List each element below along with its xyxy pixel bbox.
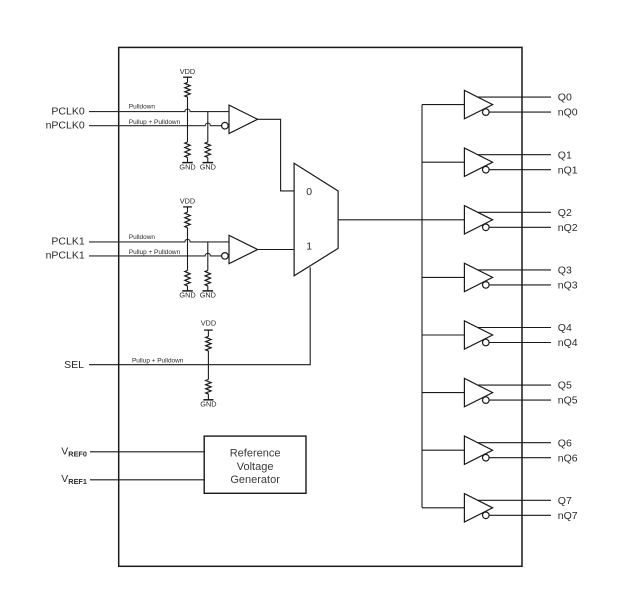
wire PCLK1 input (hop over pullup vertical) — [89, 239, 229, 242]
svg-text:GND: GND — [179, 291, 195, 300]
wire output buffer U10 input — [422, 449, 464, 451]
wire pullup/pulldown vertical (nPCLK0) — [187, 97, 189, 142]
wire nQ7 output — [489, 514, 551, 516]
svg-text:REF1: REF1 — [68, 477, 87, 486]
svg-text:Generator: Generator — [230, 474, 280, 486]
wire output distribution bus — [421, 105, 423, 508]
svg-text:REF0: REF0 — [68, 449, 87, 458]
svg-text:0: 0 — [306, 186, 312, 198]
wire nQ5 output — [489, 399, 551, 401]
wire pulldown vertical (PCLK0) — [207, 112, 209, 142]
svg-text:Q4: Q4 — [558, 322, 572, 334]
input buffer U1 — [222, 105, 258, 133]
wire output buffer U8 input — [422, 334, 464, 336]
wire nPCLK0 input (hop over pulldown vertical) — [89, 123, 222, 126]
resistor pullup (nPCLK1) — [185, 212, 190, 228]
resistor pullup (SEL) — [206, 336, 211, 351]
svg-text:VDD: VDD — [180, 67, 195, 76]
wire SEL input to mux select — [89, 267, 310, 365]
svg-text:PCLK0: PCLK0 — [51, 105, 84, 117]
reference voltage generator block — [204, 436, 306, 493]
input buffer U2 — [222, 235, 258, 263]
wire output buffer U9 input — [422, 392, 464, 394]
wire nQ1 output — [489, 169, 551, 171]
svg-text:nQ0: nQ0 — [558, 107, 578, 119]
resistor pulldown (PCLK1) — [205, 270, 210, 286]
wire Q0 output — [478, 96, 551, 98]
wire VREF0 input — [90, 451, 204, 453]
wire Q1 output — [478, 154, 551, 156]
pin label VREF1 — [61, 473, 87, 486]
ground GND (SEL pulldown) — [200, 394, 216, 409]
svg-text:GND: GND — [179, 162, 195, 171]
svg-text:VDD: VDD — [201, 319, 216, 328]
power VDD symbol (U2) — [180, 196, 195, 212]
output buffer U8 (Q4/nQ4) — [464, 321, 492, 349]
wire pullup/pulldown vertical (nPCLK1) — [187, 228, 189, 271]
chip boundary box — [119, 47, 522, 566]
power VDD symbol (SEL) — [201, 319, 216, 337]
output buffer U11 (Q7/nQ7) — [464, 494, 492, 522]
resistor pullup (nPCLK0) — [185, 83, 190, 98]
wire pulldown vertical (PCLK1) — [207, 242, 209, 271]
output buffer U10 (Q6/nQ6) — [464, 436, 492, 464]
wire output buffer U5 input — [422, 161, 464, 163]
resistor pulldown (nPCLK1) — [185, 270, 190, 286]
ground GND (nPCLK0 pulldown) — [179, 158, 195, 172]
resistor pulldown (PCLK0) — [205, 142, 210, 158]
wire U1 output to mux input 0 — [258, 119, 295, 191]
wire Q2 output — [478, 211, 551, 213]
wire nQ0 output — [489, 111, 551, 113]
svg-text:nQ5: nQ5 — [558, 395, 578, 407]
wire PCLK0 input (hop over pullup vertical) — [89, 109, 229, 112]
svg-text:Pullup + Pulldown: Pullup + Pulldown — [132, 357, 184, 364]
wire Q6 output — [478, 442, 551, 444]
svg-text:Q2: Q2 — [558, 207, 572, 219]
output buffer U9 (Q5/nQ5) — [464, 378, 492, 406]
wire nQ3 output — [489, 284, 551, 286]
ground GND (PCLK0 pulldown) — [200, 158, 216, 172]
svg-text:VDD: VDD — [180, 196, 195, 205]
wire output buffer U4 input — [422, 104, 464, 106]
output buffer U4 (Q0/nQ0) — [464, 90, 492, 118]
svg-text:Q6: Q6 — [558, 437, 572, 449]
pin label VREF0 — [61, 445, 87, 458]
svg-text:Q3: Q3 — [558, 265, 572, 277]
wire SEL pullup vertical — [207, 351, 209, 380]
ground GND (nPCLK1 pulldown) — [179, 286, 195, 300]
wire Q3 output — [478, 269, 551, 271]
resistor pulldown (SEL) — [206, 380, 211, 395]
svg-text:Voltage: Voltage — [237, 461, 274, 473]
svg-text:Pullup + Pulldown: Pullup + Pulldown — [129, 249, 181, 256]
svg-text:1: 1 — [306, 241, 312, 253]
svg-text:Pullup + Pulldown: Pullup + Pulldown — [129, 119, 181, 126]
svg-text:nQ1: nQ1 — [558, 164, 578, 176]
svg-text:V: V — [61, 473, 68, 485]
wire output buffer U7 input — [422, 276, 464, 278]
svg-text:nPCLK0: nPCLK0 — [46, 119, 85, 131]
wire output buffer U11 input — [422, 507, 464, 509]
svg-text:nQ2: nQ2 — [558, 222, 578, 234]
power VDD symbol (U1) — [180, 67, 195, 83]
resistor pulldown (nPCLK0) — [185, 142, 190, 158]
svg-text:Pulldown: Pulldown — [129, 234, 156, 241]
svg-text:Q7: Q7 — [558, 495, 572, 507]
ground GND (PCLK1 pulldown) — [200, 286, 216, 300]
svg-text:nQ6: nQ6 — [558, 452, 578, 464]
svg-text:V: V — [61, 445, 68, 457]
svg-text:GND: GND — [200, 400, 216, 409]
wire Q5 output — [478, 384, 551, 386]
svg-text:GND: GND — [200, 291, 216, 300]
svg-text:Q5: Q5 — [558, 380, 572, 392]
mux U3 — [294, 163, 338, 276]
wire U2 output to mux input 1 — [258, 249, 295, 251]
wire Q4 output — [478, 327, 551, 329]
svg-text:nQ3: nQ3 — [558, 280, 578, 292]
wire mux output to output bus — [338, 219, 422, 221]
wire output buffer U6 input — [422, 219, 464, 221]
output buffer U5 (Q1/nQ1) — [464, 148, 492, 176]
svg-text:GND: GND — [200, 162, 216, 171]
svg-text:nQ4: nQ4 — [558, 337, 578, 349]
wire nQ6 output — [489, 457, 551, 459]
svg-text:nPCLK1: nPCLK1 — [46, 250, 85, 262]
svg-text:Pulldown: Pulldown — [129, 104, 156, 111]
svg-text:PCLK1: PCLK1 — [51, 236, 84, 248]
svg-text:nQ7: nQ7 — [558, 510, 578, 522]
output buffer U6 (Q2/nQ2) — [464, 206, 492, 234]
wire VREF1 input — [90, 479, 204, 481]
svg-text:Q0: Q0 — [558, 92, 572, 104]
wire Q7 output — [478, 499, 551, 501]
wire nQ2 output — [489, 226, 551, 228]
svg-text:SEL: SEL — [64, 359, 84, 371]
svg-text:Reference: Reference — [230, 448, 281, 460]
svg-text:Q1: Q1 — [558, 149, 572, 161]
wire nPCLK1 input (hop over pulldown vertical) — [89, 253, 222, 256]
wire nQ4 output — [489, 342, 551, 344]
output buffer U7 (Q3/nQ3) — [464, 263, 492, 291]
